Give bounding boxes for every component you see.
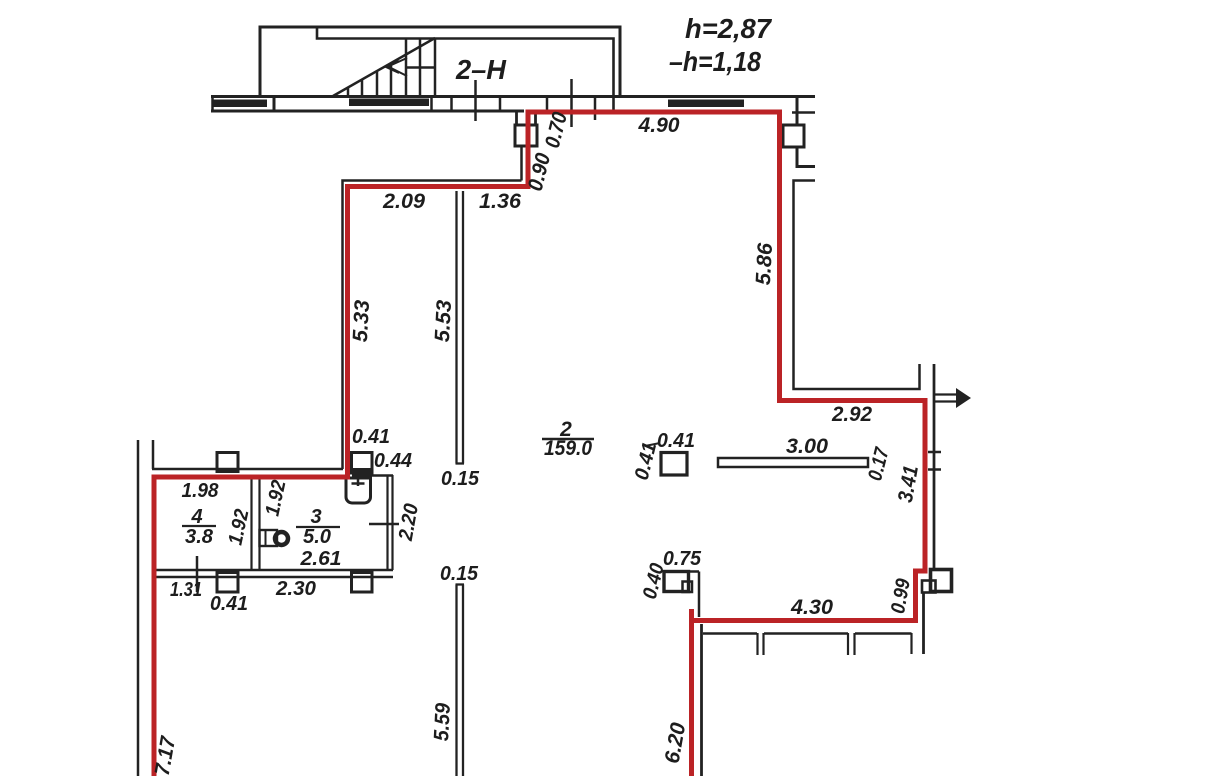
svg-text:0.15: 0.15 bbox=[440, 563, 479, 585]
red unit boundary bbox=[154, 112, 925, 776]
bottom room inner wall segments bbox=[703, 632, 757, 635]
central wall lower 5.59 bbox=[456, 585, 465, 776]
hall top-left black wall edge bbox=[343, 181, 522, 470]
hall right inner wall overlay bbox=[933, 364, 936, 569]
svg-text:3: 3 bbox=[310, 506, 321, 528]
hall top-right inner wall outline bbox=[794, 181, 920, 390]
pillar below bottom wall right bbox=[352, 573, 373, 593]
room3 right wall bbox=[388, 475, 393, 570]
top wall left cap bbox=[211, 96, 214, 112]
bottom right wall below box bbox=[922, 592, 925, 654]
svg-text:1.92: 1.92 bbox=[224, 507, 253, 547]
room 2 fraction line bbox=[542, 438, 594, 441]
svg-text:1.92: 1.92 bbox=[261, 478, 290, 518]
svg-text:0.15: 0.15 bbox=[441, 468, 480, 490]
central wall upper 5.53 bbox=[456, 191, 465, 464]
svg-text:1.36: 1.36 bbox=[479, 190, 521, 213]
svg-text:4.90: 4.90 bbox=[637, 114, 679, 137]
dimension bar 3.00 bbox=[718, 458, 868, 467]
window bar top right bbox=[668, 100, 744, 108]
svg-text:5.0: 5.0 bbox=[303, 526, 331, 548]
stairwell outer wall bbox=[260, 27, 620, 96]
corner box notch bbox=[922, 581, 936, 593]
svg-text:0.99: 0.99 bbox=[887, 576, 915, 615]
left outer wall line bbox=[137, 440, 140, 776]
dimension tick 0.70 left bbox=[570, 79, 573, 127]
dimension tick 0.70 right bbox=[594, 98, 597, 120]
svg-text:0.41: 0.41 bbox=[210, 593, 248, 615]
sink circle bbox=[275, 532, 288, 545]
corridor wall below box bbox=[520, 146, 523, 181]
top wall inner line right part bbox=[792, 111, 815, 114]
room3 wall connector bbox=[372, 474, 393, 477]
svg-text:2.30: 2.30 bbox=[275, 578, 316, 600]
svg-text:2.92: 2.92 bbox=[831, 403, 872, 426]
svg-text:2.20: 2.20 bbox=[395, 502, 423, 543]
pillar below bottom wall left bbox=[217, 573, 238, 593]
wall fill under stairs bbox=[349, 99, 429, 107]
rooms top wall black line bbox=[152, 468, 343, 471]
center pillar square bbox=[661, 453, 687, 476]
svg-text:1.31: 1.31 bbox=[170, 579, 202, 601]
svg-text:4: 4 bbox=[190, 506, 202, 528]
wall dividers bbox=[432, 96, 548, 112]
wall divider bbox=[273, 96, 276, 112]
svg-text:0.17: 0.17 bbox=[864, 445, 894, 483]
svg-text:2.61: 2.61 bbox=[299, 548, 341, 570]
room 4 fraction line bbox=[182, 525, 216, 527]
rooms divider wall bbox=[252, 479, 260, 569]
svg-text:159.0: 159.0 bbox=[544, 437, 592, 460]
stair treads bbox=[348, 38, 436, 96]
top wall outer line bbox=[211, 95, 815, 98]
svg-text:h=2,87: h=2,87 bbox=[685, 13, 772, 44]
corridor stub walls 0.90 bbox=[517, 111, 536, 125]
bottom right room pillar 0.75 bbox=[664, 572, 689, 592]
left wall second line bbox=[152, 440, 155, 469]
stairwell inner wall bbox=[317, 27, 614, 111]
toilet flush mark bbox=[357, 478, 360, 486]
svg-text:0.75: 0.75 bbox=[663, 548, 702, 570]
svg-text:0.41: 0.41 bbox=[657, 430, 695, 452]
svg-text:0.44: 0.44 bbox=[374, 450, 412, 472]
dimension tick 2-H bbox=[474, 80, 477, 121]
hall right inner wall bbox=[933, 364, 936, 569]
right stub elbow bbox=[797, 147, 815, 167]
toilet bbox=[346, 478, 371, 503]
right stub window box bbox=[783, 125, 804, 147]
right stub wall bbox=[796, 98, 799, 125]
dimension ticks 0.17 bbox=[928, 451, 941, 454]
sink box bbox=[260, 530, 278, 546]
svg-text:1.98: 1.98 bbox=[182, 480, 220, 502]
corridor window box bbox=[515, 125, 537, 146]
stair direction arrow bbox=[386, 58, 407, 76]
wall from pillar to red bbox=[689, 572, 700, 618]
svg-text:0.70: 0.70 bbox=[541, 110, 572, 151]
wall fill segment left bbox=[213, 100, 267, 108]
svg-text:6.20: 6.20 bbox=[661, 721, 691, 766]
pillar notch bbox=[683, 582, 693, 593]
rooms bottom wall bbox=[154, 569, 393, 572]
corner box 0.99 bbox=[931, 570, 952, 592]
svg-text:2.09: 2.09 bbox=[382, 190, 425, 213]
svg-text:5.59: 5.59 bbox=[430, 702, 455, 741]
room 3 fraction line bbox=[296, 526, 340, 528]
svg-text:5.53: 5.53 bbox=[431, 299, 456, 342]
svg-text:3.8: 3.8 bbox=[185, 526, 214, 548]
dimension tick 2.20 bbox=[369, 523, 399, 526]
top wall inner line bbox=[211, 110, 524, 113]
svg-text:3.00: 3.00 bbox=[786, 435, 828, 458]
svg-text:5.86: 5.86 bbox=[752, 242, 777, 285]
svg-text:0.41: 0.41 bbox=[352, 426, 390, 448]
pillar on rooms top wall bbox=[217, 453, 238, 472]
svg-text:2–Н: 2–Н bbox=[455, 54, 507, 85]
pillar right on rooms top wall bbox=[352, 453, 373, 474]
svg-text:4.30: 4.30 bbox=[790, 596, 833, 619]
dimension tick 1.31 bbox=[196, 556, 199, 592]
sink divider bbox=[265, 530, 267, 546]
svg-text:–h=1,18: –h=1,18 bbox=[669, 46, 761, 77]
wall below red left bbox=[700, 624, 703, 776]
leader dash 0.41 bbox=[645, 443, 660, 446]
staircase hypotenuse bbox=[333, 38, 435, 96]
entrance arrow bbox=[933, 388, 971, 408]
door ticks bbox=[758, 633, 912, 655]
svg-text:3.41: 3.41 bbox=[894, 464, 923, 504]
svg-text:5.33: 5.33 bbox=[349, 299, 374, 342]
